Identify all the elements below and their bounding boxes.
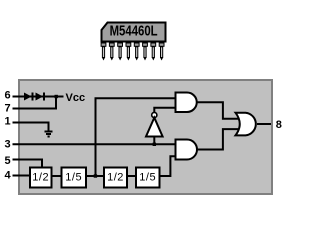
svg-text:1/2: 1/2 bbox=[32, 171, 49, 183]
AND gate U4 (bottom) bbox=[176, 140, 198, 160]
svg-text:1/5: 1/5 bbox=[139, 171, 156, 183]
Vcc trunk wire to AND1 bbox=[95, 97, 177, 99]
svg-text:Vcc: Vcc bbox=[66, 92, 86, 104]
svg-text:5: 5 bbox=[5, 155, 11, 167]
wire divider C to D bbox=[127, 175, 136, 177]
inverter output wire to AND1 bbox=[154, 108, 176, 113]
OR gate U5 bbox=[236, 113, 256, 136]
diode D1 bbox=[24, 93, 33, 101]
pin 6 wire to Vcc bbox=[13, 96, 64, 98]
Vcc trunk wire down bbox=[95, 98, 97, 176]
junction node divider trunk bbox=[94, 174, 97, 177]
junction node inverter input bbox=[153, 143, 156, 146]
inverter U2 bubble bbox=[152, 112, 157, 117]
divider block C 1/2 bbox=[104, 168, 127, 188]
divider block A 1/2 bbox=[30, 168, 52, 188]
svg-text:7: 7 bbox=[5, 102, 11, 114]
svg-text:3: 3 bbox=[5, 138, 11, 150]
inverter input stub bbox=[153, 137, 155, 145]
svg-text:1: 1 bbox=[5, 116, 11, 128]
svg-text:6: 6 bbox=[5, 90, 11, 102]
ground symbol bbox=[45, 132, 53, 137]
divider block D 1/5 bbox=[136, 168, 160, 188]
pin 4 wire into divider A bbox=[13, 175, 31, 177]
IC pin leg 8 bbox=[159, 43, 164, 61]
svg-text:8: 8 bbox=[276, 119, 282, 131]
pin 5 wire into divider A top bbox=[13, 160, 43, 168]
IC pin leg 7 bbox=[151, 43, 156, 61]
svg-text:M54460L: M54460L bbox=[110, 24, 158, 40]
IC pin leg 1 bbox=[101, 43, 106, 61]
IC pin leg 2 bbox=[109, 43, 114, 61]
junction node Vcc bbox=[55, 95, 58, 98]
AND gate U3 (top) bbox=[176, 93, 197, 113]
pin 1 wire bbox=[13, 123, 49, 132]
pin 7 wire up to Vcc junction bbox=[13, 97, 57, 109]
pin 3 wire to AND2 input bbox=[13, 143, 177, 145]
block diagram outer box bbox=[19, 80, 272, 194]
wire divider A to B bbox=[52, 175, 63, 177]
svg-text:4: 4 bbox=[5, 170, 12, 182]
inverter U2 triangle bbox=[146, 118, 163, 137]
IC pin leg 4 bbox=[126, 43, 131, 61]
wire AND1 output to OR1 bbox=[197, 102, 240, 118]
wire AND2 output to OR1 bbox=[197, 129, 240, 149]
wire divider D to AND2 lower input bbox=[160, 156, 176, 176]
wire OR1 output to pin 8 bbox=[257, 123, 271, 125]
IC package U1 body bbox=[102, 23, 166, 42]
wire divider B to C bbox=[86, 175, 104, 177]
IC pin leg 6 bbox=[143, 43, 148, 61]
divider block B 1/5 bbox=[62, 168, 87, 188]
IC pin leg 5 bbox=[134, 43, 139, 61]
diode D2 bbox=[36, 93, 45, 101]
svg-text:1/2: 1/2 bbox=[107, 171, 124, 183]
IC pin leg 3 bbox=[118, 43, 123, 61]
svg-text:1/5: 1/5 bbox=[65, 171, 82, 183]
